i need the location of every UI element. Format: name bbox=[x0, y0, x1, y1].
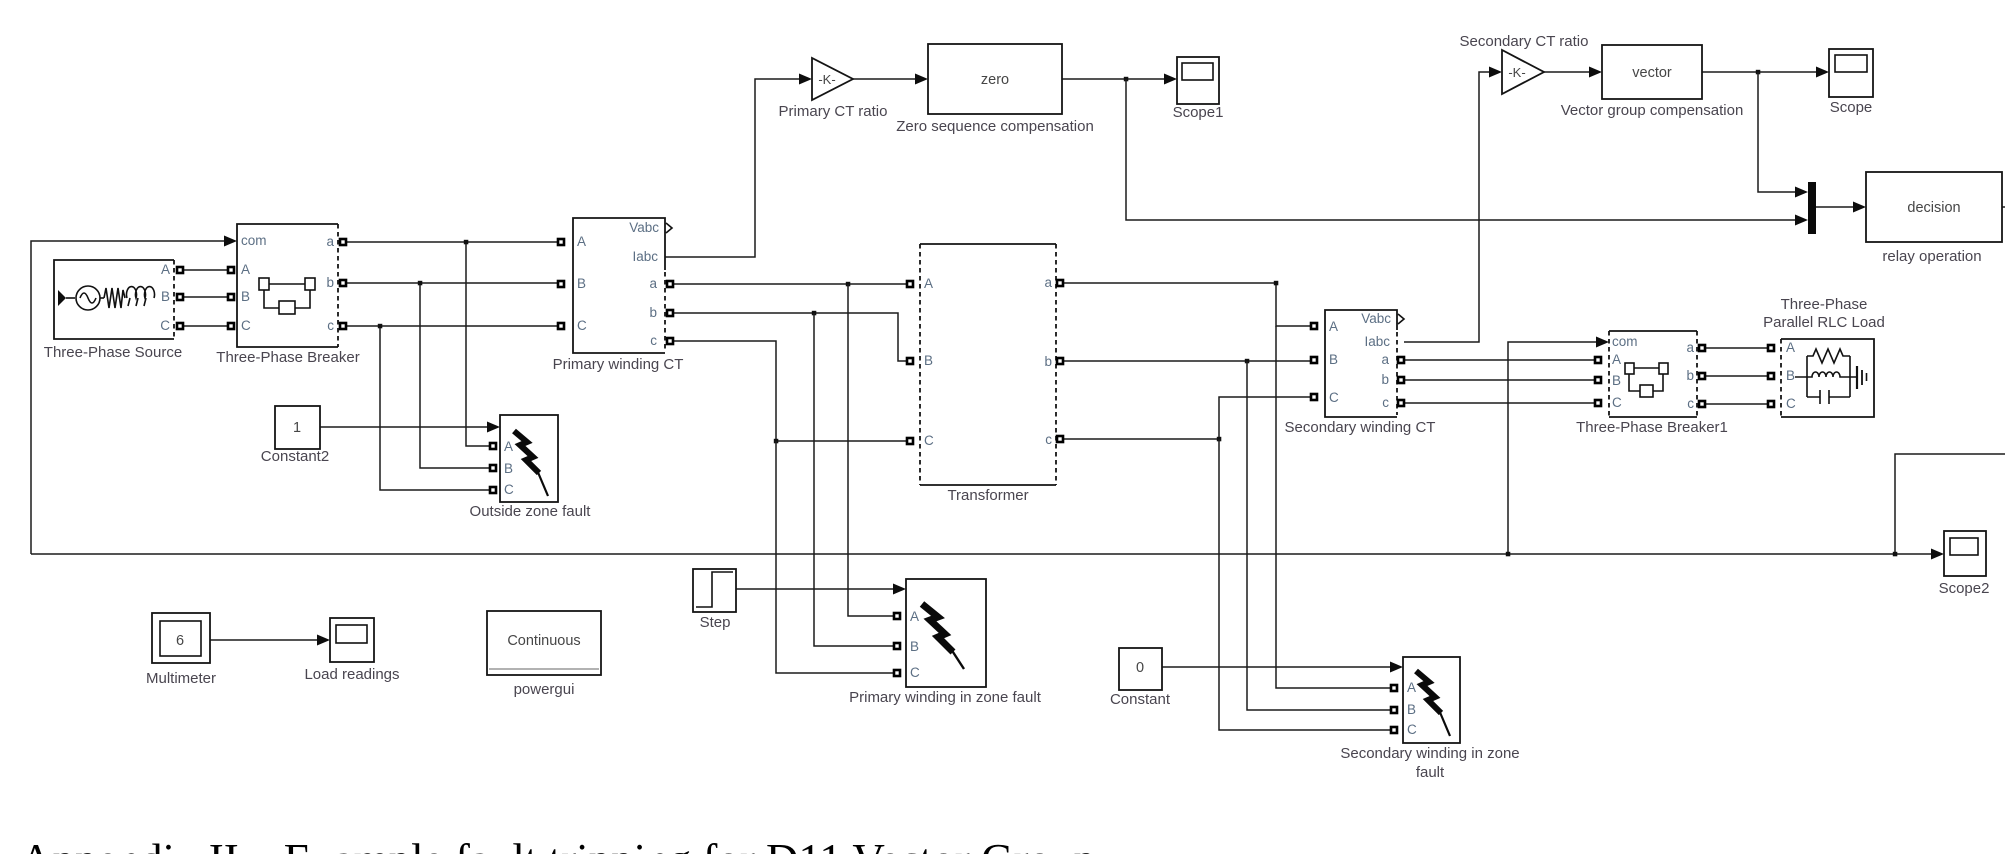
svg-text:1: 1 bbox=[293, 420, 301, 436]
svg-text:a: a bbox=[1686, 340, 1694, 355]
svg-text:Three-Phase Breaker: Three-Phase Breaker bbox=[216, 349, 359, 366]
svg-text:zero: zero bbox=[981, 72, 1009, 88]
block Constant2 bbox=[261, 406, 329, 465]
svg-text:Transformer: Transformer bbox=[947, 487, 1028, 504]
svg-text:Vector group compensation: Vector group compensation bbox=[1561, 102, 1744, 119]
svg-text:Iabc: Iabc bbox=[1364, 334, 1390, 349]
junction on transformer b wire bbox=[1245, 359, 1250, 364]
wire CT b to Transformer B bbox=[673, 313, 907, 361]
junction on transformer c wire bbox=[1217, 437, 1222, 442]
gain Primary CT ratio bbox=[779, 58, 888, 120]
svg-text:b: b bbox=[326, 275, 334, 290]
svg-text:a: a bbox=[1381, 352, 1389, 367]
block Secondary winding in zone fault bbox=[1340, 657, 1519, 781]
block Step bbox=[693, 569, 736, 631]
block Three-Phase Breaker1 bbox=[1576, 331, 1728, 436]
port squares transformer outputs bbox=[1057, 280, 1063, 442]
port squares secondary fault bbox=[1391, 685, 1397, 733]
arrowhead into mux lower input bbox=[1795, 215, 1808, 226]
block powergui bbox=[487, 611, 601, 698]
branch to primary in zone fault A bbox=[848, 284, 894, 616]
svg-text:fault: fault bbox=[1416, 764, 1445, 781]
svg-text:B: B bbox=[577, 276, 586, 291]
block vector (Vector group compensation) bbox=[1561, 45, 1744, 119]
block Three-Phase Breaker bbox=[216, 224, 359, 366]
svg-text:-K-: -K- bbox=[1508, 65, 1525, 80]
svg-text:b: b bbox=[1686, 368, 1694, 383]
wire breaker1 c to RLC C bbox=[1705, 403, 1768, 405]
svg-text:c: c bbox=[1382, 395, 1389, 410]
svg-text:Scope1: Scope1 bbox=[1173, 104, 1224, 121]
block Secondary winding CT bbox=[1285, 310, 1436, 436]
wire Step to primary fault trigger bbox=[736, 588, 895, 590]
port squares breaker inputs bbox=[228, 267, 234, 329]
svg-text:A: A bbox=[161, 262, 170, 277]
scope Scope1 bbox=[1173, 57, 1224, 121]
junction on a wire bbox=[464, 240, 469, 245]
svg-text:A: A bbox=[910, 609, 919, 624]
svg-text:A: A bbox=[1786, 340, 1795, 355]
port squares CT outputs bbox=[667, 281, 673, 344]
svg-text:b: b bbox=[1044, 354, 1052, 369]
wire breaker a to CT A bbox=[346, 241, 558, 243]
svg-text:B: B bbox=[161, 289, 170, 304]
svg-text:C: C bbox=[504, 482, 514, 497]
block Constant bbox=[1110, 648, 1171, 708]
branch to primary in zone fault B bbox=[814, 313, 894, 646]
svg-text:Vabc: Vabc bbox=[629, 220, 659, 235]
arrowhead into outside fault trigger bbox=[487, 422, 500, 433]
svg-text:C: C bbox=[577, 318, 587, 333]
wire breaker1 com riser bbox=[1508, 342, 1597, 554]
branch a to outside fault A bbox=[466, 242, 490, 446]
svg-text:c: c bbox=[650, 333, 657, 348]
svg-text:B: B bbox=[504, 461, 513, 476]
svg-text:0: 0 bbox=[1136, 660, 1144, 676]
arrowhead into secondary fault trigger bbox=[1390, 662, 1403, 673]
block decision (relay operation) bbox=[1866, 172, 2002, 265]
arrowhead into Scope bbox=[1816, 67, 1829, 78]
wire secondary CT c to breaker1 C bbox=[1404, 402, 1595, 404]
svg-text:B: B bbox=[241, 289, 250, 304]
svg-text:A: A bbox=[1612, 352, 1621, 367]
junction on transformer a wire bbox=[1274, 281, 1279, 286]
svg-text:C: C bbox=[1329, 390, 1339, 405]
port squares transformer inputs bbox=[907, 281, 913, 444]
svg-text:B: B bbox=[924, 353, 933, 368]
svg-text:B: B bbox=[1786, 368, 1795, 383]
arrowhead into zero block bbox=[915, 74, 928, 85]
branch transformer c down to secondary fault C bbox=[1219, 439, 1391, 730]
svg-text:Scope2: Scope2 bbox=[1939, 580, 1990, 597]
svg-text:B: B bbox=[1407, 702, 1416, 717]
wire CT a to Transformer A bbox=[673, 283, 907, 285]
svg-text:Three-Phase Source: Three-Phase Source bbox=[44, 344, 182, 361]
wire Constant2 to outside fault trigger bbox=[320, 426, 489, 428]
svg-text:C: C bbox=[1786, 396, 1796, 411]
port squares breaker1 outputs bbox=[1699, 345, 1705, 407]
wire transformer b to secondary CT B bbox=[1063, 360, 1311, 362]
wire decision feedback right bbox=[1895, 454, 2005, 554]
mux before decision bbox=[1808, 182, 1816, 234]
arrowhead into Scope2 bbox=[1931, 549, 1944, 560]
branch to primary in zone fault C bbox=[776, 441, 894, 673]
svg-text:C: C bbox=[924, 433, 934, 448]
svg-text:-K-: -K- bbox=[818, 72, 835, 87]
svg-text:Continuous: Continuous bbox=[507, 633, 580, 649]
wire secondary CT a to breaker1 A bbox=[1404, 359, 1595, 361]
block Primary winding CT bbox=[553, 218, 684, 373]
svg-text:Step: Step bbox=[700, 614, 731, 631]
wire Constant to secondary fault trigger bbox=[1162, 666, 1392, 668]
port squares breaker1 inputs bbox=[1595, 357, 1601, 406]
scope Load readings bbox=[304, 618, 399, 683]
wire vector to Scope bbox=[1702, 71, 1818, 73]
svg-text:Parallel RLC Load: Parallel RLC Load bbox=[1763, 314, 1885, 331]
junction on b wire bbox=[418, 281, 423, 286]
svg-text:A: A bbox=[1407, 680, 1416, 695]
wire transformer c to secondary CT C bbox=[1063, 397, 1311, 439]
svg-text:C: C bbox=[1612, 395, 1622, 410]
branch b to outside fault B bbox=[420, 283, 490, 468]
arrowhead into mux upper input bbox=[1795, 187, 1808, 198]
svg-text:b: b bbox=[649, 305, 657, 320]
svg-text:Primary CT ratio: Primary CT ratio bbox=[779, 103, 888, 120]
wire secondary CT b to breaker1 B bbox=[1404, 379, 1595, 381]
block Multimeter bbox=[146, 613, 216, 687]
svg-text:com: com bbox=[1612, 334, 1638, 349]
svg-text:Multimeter: Multimeter bbox=[146, 670, 216, 687]
junction on CT c riser bbox=[774, 439, 779, 444]
wire decision output nub bbox=[2002, 206, 2005, 208]
svg-text:Vabc: Vabc bbox=[1361, 311, 1391, 326]
junction on c wire bbox=[378, 324, 383, 329]
svg-text:Iabc: Iabc bbox=[632, 249, 658, 264]
svg-text:c: c bbox=[1687, 396, 1694, 411]
svg-text:Zero sequence compensation: Zero sequence compensation bbox=[896, 118, 1094, 135]
svg-text:C: C bbox=[160, 318, 170, 333]
svg-text:c: c bbox=[1045, 432, 1052, 447]
arrowhead into Three-Phase Breaker1 com bbox=[1596, 337, 1609, 348]
junction on CT b wire bbox=[812, 311, 817, 316]
branch c to outside fault C bbox=[380, 326, 490, 490]
svg-text:Outside zone fault: Outside zone fault bbox=[470, 503, 592, 520]
arrowhead into Scope1 bbox=[1164, 74, 1177, 85]
svg-text:decision: decision bbox=[1907, 200, 1960, 216]
wire source B to breaker B bbox=[183, 296, 228, 298]
port squares breaker outputs bbox=[340, 239, 346, 329]
wire secondary CT Iabc to gain2 bbox=[1404, 72, 1491, 342]
svg-text:Secondary winding CT: Secondary winding CT bbox=[1285, 419, 1436, 436]
svg-text:C: C bbox=[1407, 722, 1417, 737]
wire zero to Scope1 bbox=[1062, 78, 1166, 80]
svg-text:vector: vector bbox=[1632, 65, 1672, 81]
branch vector down to mux upper input bbox=[1758, 72, 1796, 192]
wire CT c to Transformer C bbox=[673, 341, 907, 441]
arrowhead into decision bbox=[1853, 202, 1866, 213]
wire gain2 to vector block bbox=[1544, 71, 1591, 73]
wire breaker1 a to RLC A bbox=[1705, 347, 1768, 349]
svg-text:B: B bbox=[1612, 373, 1621, 388]
port squares secondary CT inputs bbox=[1311, 323, 1317, 400]
svg-text:Three-Phase Breaker1: Three-Phase Breaker1 bbox=[1576, 419, 1728, 436]
block Primary winding in zone fault bbox=[849, 579, 1042, 706]
svg-text:A: A bbox=[577, 234, 586, 249]
svg-text:Load readings: Load readings bbox=[304, 666, 399, 683]
svg-text:A: A bbox=[924, 276, 933, 291]
block Three-Phase Source bbox=[44, 260, 182, 361]
svg-text:a: a bbox=[649, 276, 657, 291]
svg-text:A: A bbox=[241, 262, 250, 277]
wire long bottom bus bbox=[31, 553, 1933, 555]
svg-text:relay operation: relay operation bbox=[1882, 248, 1981, 265]
arrowhead into gain1 bbox=[799, 74, 812, 85]
svg-text:6: 6 bbox=[176, 633, 184, 649]
junction breaker1 com on bus bbox=[1506, 552, 1511, 557]
svg-text:Scope: Scope bbox=[1830, 99, 1873, 116]
port squares outside fault bbox=[490, 443, 496, 493]
svg-text:Three-Phase: Three-Phase bbox=[1781, 296, 1868, 313]
arrowhead into vector block bbox=[1589, 67, 1602, 78]
svg-text:a: a bbox=[1044, 275, 1052, 290]
svg-text:B: B bbox=[910, 639, 919, 654]
branch transformer a down to secondary fault A bbox=[1276, 326, 1391, 688]
svg-text:Constant2: Constant2 bbox=[261, 448, 329, 465]
svg-text:Constant: Constant bbox=[1110, 691, 1171, 708]
junction zero output bbox=[1124, 77, 1129, 82]
port squares source outputs bbox=[177, 267, 183, 329]
svg-text:Primary winding CT: Primary winding CT bbox=[553, 356, 684, 373]
arrowhead into gain2 bbox=[1489, 67, 1502, 78]
gain Secondary CT ratio bbox=[1460, 33, 1589, 94]
svg-text:com: com bbox=[241, 233, 267, 248]
arrowhead into load readings bbox=[317, 635, 330, 646]
port squares RLC inputs bbox=[1768, 345, 1774, 407]
svg-text:Primary winding in zone fault: Primary winding in zone fault bbox=[849, 689, 1042, 706]
wire breaker1 b to RLC B bbox=[1705, 375, 1768, 377]
wire source A to breaker A bbox=[183, 269, 228, 271]
svg-text:b: b bbox=[1381, 372, 1389, 387]
svg-text:A: A bbox=[1329, 319, 1338, 334]
wire multimeter to load readings bbox=[210, 639, 319, 641]
svg-text:B: B bbox=[1329, 352, 1338, 367]
wire source C to breaker C bbox=[183, 325, 228, 327]
wire mux to decision bbox=[1816, 206, 1855, 208]
arrowhead into Three-Phase Breaker com bbox=[224, 236, 237, 247]
wire transformer a to secondary CT A bbox=[1063, 283, 1311, 326]
svg-text:Secondary winding in zone: Secondary winding in zone bbox=[1340, 745, 1519, 762]
branch transformer b down to secondary fault B bbox=[1247, 361, 1391, 710]
junction on CT a wire bbox=[846, 282, 851, 287]
block Transformer bbox=[920, 244, 1056, 504]
svg-text:C: C bbox=[241, 318, 251, 333]
wire breaker b to CT B bbox=[346, 282, 558, 284]
port squares CT inputs bbox=[558, 239, 564, 329]
block Outside zone fault bbox=[470, 415, 592, 520]
svg-text:a: a bbox=[326, 234, 334, 249]
scope Scope bbox=[1829, 49, 1873, 116]
arrowhead into primary fault trigger bbox=[893, 584, 906, 595]
port squares secondary CT outputs bbox=[1398, 357, 1404, 406]
junction right loop on bus bbox=[1893, 552, 1898, 557]
svg-text:c: c bbox=[327, 318, 334, 333]
block zero (Zero sequence compensation) bbox=[896, 44, 1094, 135]
svg-text:A: A bbox=[504, 439, 513, 454]
block Three-Phase Parallel RLC Load bbox=[1763, 296, 1885, 417]
port squares primary fault bbox=[894, 613, 900, 676]
svg-text:Appendix II – Example fault tr: Appendix II – Example fault tripping for… bbox=[20, 835, 1096, 854]
junction vector output bbox=[1756, 70, 1761, 75]
wire zero branch down to mux bbox=[1126, 79, 1796, 220]
wire gain1 to zero block bbox=[853, 78, 917, 80]
svg-text:C: C bbox=[910, 665, 920, 680]
svg-text:powergui: powergui bbox=[514, 681, 575, 698]
wire left feedback loop vertical bbox=[31, 241, 226, 554]
wire CT Iabc to Primary CT ratio gain bbox=[665, 79, 801, 257]
svg-text:Secondary CT ratio: Secondary CT ratio bbox=[1460, 33, 1589, 50]
wire breaker c to CT C bbox=[346, 325, 558, 327]
scope Scope2 bbox=[1939, 531, 1990, 597]
